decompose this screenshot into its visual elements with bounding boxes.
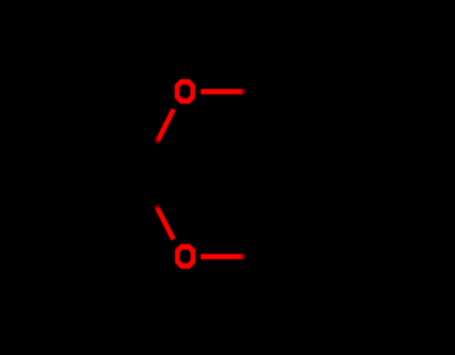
bond O1-C2 (upper diagonal bond, red half fading down-left) bbox=[156, 109, 174, 144]
bond O3-C2 (lower diagonal bond, red half fading up-left) bbox=[155, 204, 173, 239]
atom O3 (bottom oxygen label) bbox=[175, 244, 195, 269]
bond O3-C4 (bottom horizontal bond, red half fading right) bbox=[201, 254, 247, 259]
atom O1 (top oxygen label) bbox=[175, 79, 195, 104]
bond O1-C6 (top horizontal bond, red half fading right) bbox=[201, 89, 247, 94]
